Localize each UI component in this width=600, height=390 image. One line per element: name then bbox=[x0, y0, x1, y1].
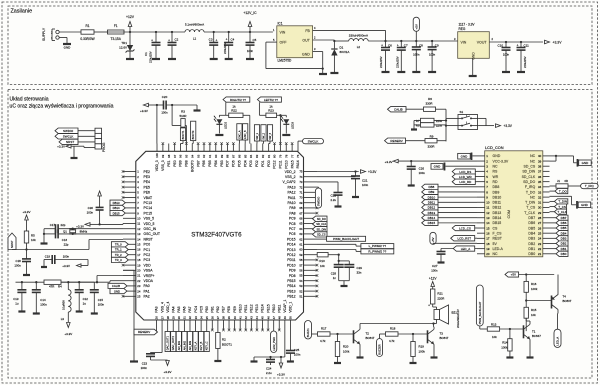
capacitor C24 bbox=[266, 357, 275, 375]
svg-text:FB: FB bbox=[305, 29, 310, 33]
svg-text:R23: R23 bbox=[268, 108, 274, 112]
svg-text:OSC_OUT: OSC_OUT bbox=[144, 232, 160, 236]
svg-text:GND: GND bbox=[472, 52, 476, 60]
net flag GND at LCD pin3 bbox=[431, 163, 477, 171]
svg-text:PB5: PB5 bbox=[208, 160, 212, 167]
svg-text:SD_CLK: SD_CLK bbox=[522, 175, 536, 179]
svg-text:PB8: PB8 bbox=[185, 160, 189, 167]
svg-text:V_CAP2: V_CAP2 bbox=[282, 180, 295, 184]
svg-text:34: 34 bbox=[199, 316, 203, 320]
net flag +5V vertical at LCD pin18 bbox=[430, 232, 477, 244]
svg-text:4.7k: 4.7k bbox=[320, 339, 326, 343]
net flag DB11 bbox=[422, 200, 477, 205]
svg-text:VDD_5: VDD_5 bbox=[144, 222, 155, 226]
svg-text:+3.3V: +3.3V bbox=[64, 332, 72, 336]
LED LED3 bbox=[281, 115, 295, 133]
svg-text:DB1: DB1 bbox=[561, 247, 567, 251]
svg-text:+3.3V: +3.3V bbox=[504, 124, 513, 128]
svg-text:39: 39 bbox=[227, 316, 231, 320]
svg-text:80: 80 bbox=[273, 154, 277, 158]
svg-text:PA3: PA3 bbox=[155, 306, 159, 312]
svg-text:VCC-3.3V: VCC-3.3V bbox=[493, 159, 509, 163]
wire R10 to caps bbox=[328, 254, 349, 262]
svg-text:C11: C11 bbox=[524, 44, 530, 48]
svg-text:72: 72 bbox=[299, 185, 303, 189]
supply +3.3V bbox=[140, 103, 164, 113]
net flag TR1 at PC1 bbox=[111, 247, 128, 252]
svg-text:37: 37 bbox=[538, 170, 542, 174]
svg-text:+3.3V: +3.3V bbox=[57, 145, 65, 149]
svg-text:+12V: +12V bbox=[126, 15, 135, 19]
svg-text:LED-A: LED-A bbox=[493, 247, 504, 251]
svg-text:5V: 5V bbox=[493, 242, 498, 246]
capacitor C9 bbox=[428, 41, 439, 71]
svg-text:DB11: DB11 bbox=[493, 201, 502, 205]
svg-text:63: 63 bbox=[299, 232, 303, 236]
wire rail to C2 bbox=[155, 31, 185, 33]
svg-text:PD12: PD12 bbox=[287, 253, 296, 257]
svg-text:83: 83 bbox=[255, 154, 259, 158]
svg-text:76: 76 bbox=[296, 154, 300, 158]
svg-text:66: 66 bbox=[299, 217, 303, 221]
svg-text:18: 18 bbox=[137, 258, 141, 262]
svg-text:R19: R19 bbox=[419, 344, 425, 348]
net flag NRST vertical bbox=[8, 233, 16, 250]
svg-text:10: 10 bbox=[486, 201, 490, 205]
ground bbox=[334, 362, 341, 364]
svg-text:PB12: PB12 bbox=[287, 295, 295, 299]
wire R22 to pin bbox=[243, 115, 250, 143]
net flag DB10 bbox=[422, 195, 477, 200]
svg-text:60V/1A: 60V/1A bbox=[340, 50, 350, 54]
capacitor C13 bbox=[13, 282, 26, 310]
svg-text:BC847: BC847 bbox=[440, 336, 449, 340]
wire REG VOUT to +3.3V bbox=[489, 41, 543, 43]
ground bbox=[194, 105, 201, 111]
svg-text:R_PWM/2 ??: R_PWM/2 ?? bbox=[368, 250, 386, 254]
svg-text:PA10: PA10 bbox=[287, 201, 295, 205]
svg-text:KEY_B: KEY_B bbox=[199, 341, 203, 350]
svg-text:10k: 10k bbox=[31, 238, 36, 242]
svg-text:BOOT0: BOOT0 bbox=[191, 130, 195, 139]
svg-text:NRST: NRST bbox=[144, 237, 153, 241]
svg-text:DB15: DB15 bbox=[113, 211, 120, 215]
svg-text:19: 19 bbox=[137, 263, 141, 267]
svg-text:+3.3V: +3.3V bbox=[385, 160, 393, 164]
svg-text:PA6: PA6 bbox=[183, 306, 187, 312]
net flag RESERV at PA3 bbox=[134, 329, 158, 335]
svg-text:NRST: NRST bbox=[10, 240, 14, 248]
transil TR1 bbox=[119, 32, 134, 58]
svg-text:TR_2: TR_2 bbox=[115, 253, 122, 257]
svg-text:R5: R5 bbox=[31, 234, 35, 238]
net flag BOOT0 vertical bbox=[191, 121, 196, 143]
svg-text:PE1: PE1 bbox=[167, 160, 171, 167]
svg-text:C29: C29 bbox=[357, 266, 363, 270]
svg-text:36: 36 bbox=[538, 175, 542, 179]
capacitor C20 bbox=[156, 95, 197, 115]
svg-text:VREF+: VREF+ bbox=[144, 274, 155, 278]
svg-text:36: 36 bbox=[211, 316, 215, 320]
svg-text:330R: 330R bbox=[426, 101, 433, 105]
ground bbox=[214, 360, 221, 362]
svg-text:PD0: PD0 bbox=[267, 160, 271, 167]
svg-text:PC10: PC10 bbox=[284, 160, 288, 169]
svg-text:VSS_5: VSS_5 bbox=[144, 217, 155, 221]
svg-text:89: 89 bbox=[220, 154, 224, 158]
svg-text:PB15: PB15 bbox=[287, 279, 295, 283]
svg-text:VDD_1: VDD_1 bbox=[289, 302, 293, 313]
svg-text:99: 99 bbox=[161, 154, 165, 158]
wire VSS_2 bbox=[317, 176, 356, 178]
svg-text:20: 20 bbox=[137, 269, 141, 273]
capacitor C23 bbox=[141, 353, 168, 371]
svg-text:+: + bbox=[381, 44, 383, 48]
net flag vertical PA15 bbox=[254, 125, 259, 144]
svg-text:79: 79 bbox=[279, 154, 283, 158]
svg-text:100k: 100k bbox=[419, 349, 426, 353]
svg-text:93: 93 bbox=[196, 154, 200, 158]
net flag SD_DIN bbox=[313, 227, 328, 232]
net flag NRST bbox=[59, 139, 78, 144]
net flag DB13 bbox=[422, 210, 477, 215]
inductor L1 bbox=[185, 23, 204, 41]
svg-text:C27: C27 bbox=[432, 264, 438, 268]
net flag RIGHT/2 bbox=[223, 97, 250, 102]
svg-text:SD_CS: SD_CS bbox=[524, 165, 536, 169]
net flag DB1 bbox=[550, 246, 569, 251]
svg-text:C24: C24 bbox=[266, 367, 272, 371]
svg-text:KEY_A: KEY_A bbox=[194, 341, 198, 350]
svg-text:47: 47 bbox=[272, 316, 276, 320]
net flag CALIB at PA0 bbox=[108, 283, 127, 288]
connector SUPPLY bbox=[42, 27, 59, 41]
svg-text:30: 30 bbox=[538, 206, 542, 210]
net flag LCD_RST bbox=[451, 236, 477, 241]
wire T1 collector bbox=[526, 318, 530, 324]
capacitor C26 bbox=[407, 161, 426, 184]
wire R7 R8 right to node bbox=[434, 121, 446, 125]
svg-text:R22: R22 bbox=[231, 108, 237, 112]
ground bbox=[76, 310, 83, 312]
svg-text:REST: REST bbox=[493, 237, 503, 241]
svg-text:SWCLK: SWCLK bbox=[308, 139, 319, 143]
svg-text:T3: T3 bbox=[440, 332, 444, 336]
svg-text:R16: R16 bbox=[531, 282, 537, 286]
supply +3.3V bbox=[361, 170, 378, 174]
wire R18 to T3 bbox=[398, 333, 428, 335]
svg-text:220u/25V: 220u/25V bbox=[379, 56, 383, 68]
net flag BUZZ1 vertical bbox=[305, 321, 318, 340]
svg-text:1u: 1u bbox=[83, 301, 87, 305]
capacitor C10 bbox=[497, 42, 510, 71]
net flag PWM_BACKLIGHT bbox=[317, 236, 366, 241]
ground bbox=[341, 285, 348, 287]
svg-text:2.2u: 2.2u bbox=[331, 198, 337, 202]
wire R1 to F1 bbox=[94, 31, 108, 33]
svg-text:PB3: PB3 bbox=[220, 160, 224, 167]
svg-text:37: 37 bbox=[216, 316, 220, 320]
capacitor C1 bbox=[144, 32, 161, 63]
svg-text:L_PWM/2 ??: L_PWM/2 ?? bbox=[369, 244, 387, 248]
svg-text:77: 77 bbox=[290, 154, 294, 158]
svg-text:100k: 100k bbox=[531, 287, 538, 291]
capacitor C29 bbox=[344, 261, 362, 281]
svg-text:SW_2: SW_2 bbox=[263, 132, 266, 139]
svg-text:C9: C9 bbox=[435, 44, 439, 48]
svg-text:SD_CLK: SD_CLK bbox=[316, 222, 326, 226]
svg-text:0R: 0R bbox=[565, 179, 569, 183]
svg-text:PB10: PB10 bbox=[272, 304, 276, 312]
svg-text:DB9: DB9 bbox=[493, 190, 500, 194]
svg-text:17: 17 bbox=[137, 253, 141, 257]
crystal circuit OSC bbox=[58, 228, 123, 236]
inductor L3 bbox=[61, 282, 71, 322]
svg-text:PB13: PB13 bbox=[287, 289, 295, 293]
svg-text:PC11: PC11 bbox=[279, 160, 283, 168]
svg-text:26: 26 bbox=[538, 226, 542, 230]
net flag DB14 at PC14 bbox=[110, 205, 125, 210]
net flag LCD_CS bbox=[452, 225, 477, 230]
svg-text:60: 60 bbox=[299, 248, 303, 252]
capacitor C2 bbox=[168, 32, 179, 58]
svg-text:DB8: DB8 bbox=[428, 185, 434, 189]
wire R9 to node bbox=[437, 140, 446, 143]
svg-text:PD4: PD4 bbox=[243, 160, 247, 167]
svg-text:PC15: PC15 bbox=[144, 211, 153, 215]
svg-text:C10: C10 bbox=[497, 44, 503, 48]
svg-text:20mA/4kHz/12V: 20mA/4kHz/12V bbox=[456, 309, 460, 328]
svg-text:100: 100 bbox=[155, 153, 159, 158]
svg-text:+3.3V: +3.3V bbox=[140, 109, 148, 113]
svg-text:PD6: PD6 bbox=[232, 160, 236, 167]
svg-text:PB9: PB9 bbox=[179, 160, 183, 167]
svg-text:R6: R6 bbox=[428, 97, 432, 101]
svg-text:82: 82 bbox=[261, 154, 265, 158]
svg-text:C8: C8 bbox=[419, 44, 423, 48]
svg-text:27: 27 bbox=[538, 221, 542, 225]
connector LCD_CON bbox=[477, 145, 550, 257]
svg-text:PA2: PA2 bbox=[144, 295, 150, 299]
ground bbox=[357, 356, 364, 358]
svg-text:1n: 1n bbox=[333, 276, 337, 280]
net flag vertical AN_IN3 bbox=[187, 330, 192, 352]
svg-text:48: 48 bbox=[277, 316, 281, 320]
svg-text:PD5: PD5 bbox=[237, 160, 241, 167]
svg-text:REG: REG bbox=[459, 27, 466, 31]
svg-text:PC1: PC1 bbox=[144, 248, 151, 252]
resistor R15 bbox=[524, 307, 537, 318]
svg-text:14: 14 bbox=[486, 221, 490, 225]
ground bbox=[41, 242, 48, 244]
resistor J1 0R bbox=[550, 179, 569, 188]
svg-text:50: 50 bbox=[289, 316, 293, 320]
svg-text:PA7: PA7 bbox=[188, 306, 192, 312]
svg-text:100n: 100n bbox=[98, 303, 105, 307]
ground bbox=[428, 71, 436, 73]
crystal Q1 bbox=[63, 229, 88, 234]
svg-text:uC oraz złącza wyświetlacza i: uC oraz złącza wyświetlacza i programowa… bbox=[10, 103, 114, 109]
svg-text:32: 32 bbox=[538, 195, 542, 199]
svg-text:100n: 100n bbox=[419, 171, 426, 175]
svg-text:16: 16 bbox=[486, 231, 490, 235]
svg-text:DB12: DB12 bbox=[493, 206, 502, 210]
svg-text:VBAT: VBAT bbox=[144, 196, 153, 200]
svg-text:LCD_CON: LCD_CON bbox=[485, 145, 504, 150]
svg-text:C23: C23 bbox=[142, 362, 148, 366]
net flag T_IRQ bbox=[568, 183, 598, 188]
svg-text:100n: 100n bbox=[161, 111, 168, 115]
net flag SD_CLK bbox=[313, 221, 328, 226]
supply +3.3V bbox=[277, 356, 285, 377]
svg-text:VDD_2: VDD_2 bbox=[285, 170, 296, 174]
svg-text:R21: R21 bbox=[437, 292, 443, 296]
svg-text:PA0: PA0 bbox=[144, 284, 150, 288]
supply +3.3V bbox=[76, 223, 100, 229]
svg-text:AN_IN2: AN_IN2 bbox=[182, 340, 186, 350]
svg-text:LCD_RST: LCD_RST bbox=[457, 236, 471, 240]
svg-text:RS: RS bbox=[493, 170, 499, 174]
svg-text:PD15: PD15 bbox=[287, 237, 296, 241]
svg-text:VIN: VIN bbox=[280, 31, 286, 35]
svg-text:84: 84 bbox=[249, 154, 253, 158]
svg-text:100n: 100n bbox=[247, 49, 254, 53]
svg-text:PE10: PE10 bbox=[238, 304, 242, 312]
wire PROG gnd bbox=[73, 146, 75, 157]
ground bbox=[410, 362, 417, 364]
svg-text:DB2: DB2 bbox=[561, 242, 567, 246]
svg-text:22p: 22p bbox=[64, 243, 69, 247]
net flag DB15 bbox=[422, 220, 477, 225]
svg-text:+3.3V: +3.3V bbox=[368, 170, 377, 174]
svg-text:GND: GND bbox=[461, 154, 469, 158]
cap C30 and +3.3V feed to VDD_5 bbox=[87, 191, 123, 226]
svg-text:PD9: PD9 bbox=[289, 269, 296, 273]
svg-text:RIGHT/2 ??: RIGHT/2 ?? bbox=[230, 98, 246, 102]
connector PROG bbox=[95, 128, 106, 152]
net flag SWCLK at PA14 bbox=[298, 139, 324, 144]
net flag vertical PD4 bbox=[243, 124, 248, 144]
svg-text:AN_IN3: AN_IN3 bbox=[188, 340, 192, 350]
svg-text:330R: 330R bbox=[428, 144, 435, 148]
resistor R2 BOOT1 bbox=[216, 330, 233, 360]
svg-text:PA12: PA12 bbox=[287, 191, 295, 195]
svg-text:S1: S1 bbox=[460, 110, 464, 114]
svg-text:100n: 100n bbox=[362, 183, 369, 187]
svg-text:R3: R3 bbox=[181, 110, 185, 114]
net flag GND bbox=[577, 201, 591, 209]
svg-text:DB10: DB10 bbox=[428, 195, 436, 199]
svg-text:DB3: DB3 bbox=[528, 237, 535, 241]
svg-text:DB13: DB13 bbox=[493, 211, 502, 215]
svg-text:+: + bbox=[428, 304, 430, 308]
resistor R1 bbox=[80, 24, 94, 41]
wire caps to ground bbox=[43, 229, 45, 243]
svg-text:PE14: PE14 bbox=[261, 304, 265, 312]
svg-text:ENC_A: ENC_A bbox=[238, 130, 241, 139]
net flag RESERV bbox=[385, 138, 426, 143]
capacitor C28 bbox=[331, 261, 344, 281]
svg-text:19: 19 bbox=[486, 247, 490, 251]
ground bbox=[168, 58, 176, 60]
svg-text:PROG: PROG bbox=[102, 142, 106, 152]
ground bbox=[502, 71, 510, 73]
svg-text:PA4: PA4 bbox=[171, 306, 175, 312]
svg-text:+5V: +5V bbox=[414, 24, 418, 29]
svg-text:OFF: OFF bbox=[280, 41, 287, 45]
net flag DB12 bbox=[422, 205, 477, 210]
svg-text:AN_IN1: AN_IN1 bbox=[177, 340, 181, 350]
transistor T2 BC847 bbox=[354, 329, 375, 344]
ground bbox=[152, 58, 160, 60]
svg-text:T1: T1 bbox=[532, 330, 536, 334]
svg-text:SD_DIN: SD_DIN bbox=[317, 227, 327, 231]
svg-text:220u/25V: 220u/25V bbox=[149, 51, 153, 63]
svg-text:40: 40 bbox=[233, 316, 237, 320]
svg-text:R20: R20 bbox=[343, 344, 349, 348]
svg-text:65: 65 bbox=[299, 222, 303, 226]
wire R13 to T1 base bbox=[500, 328, 524, 330]
wire S1 to +3.3V bbox=[446, 118, 494, 125]
svg-text:BC807: BC807 bbox=[563, 299, 572, 303]
transistor T1 BC847 bbox=[524, 324, 542, 339]
svg-text:D1: D1 bbox=[340, 46, 344, 50]
resistor R19 bbox=[411, 334, 426, 362]
svg-text:IC1: IC1 bbox=[278, 21, 283, 25]
svg-text:100n: 100n bbox=[294, 352, 301, 356]
svg-text:1117 - 3.3V: 1117 - 3.3V bbox=[459, 23, 476, 27]
net flag T_CLK bbox=[550, 209, 567, 214]
svg-text:46: 46 bbox=[266, 316, 270, 320]
svg-text:T3.15A: T3.15A bbox=[111, 37, 122, 41]
ground bbox=[397, 71, 405, 73]
svg-text:T_DO: T_DO bbox=[526, 190, 536, 194]
svg-text:C7: C7 bbox=[404, 44, 408, 48]
svg-text:VDD_3: VDD_3 bbox=[155, 160, 159, 171]
svg-text:DB7: DB7 bbox=[528, 216, 535, 220]
svg-text:R14: R14 bbox=[502, 340, 508, 344]
svg-text:VIN: VIN bbox=[461, 41, 467, 45]
svg-text:0.33R/3W: 0.33R/3W bbox=[80, 37, 94, 41]
svg-text:DB15: DB15 bbox=[428, 221, 436, 225]
svg-text:12: 12 bbox=[137, 227, 141, 231]
svg-text:41: 41 bbox=[238, 316, 242, 320]
svg-text:220u/25V: 220u/25V bbox=[523, 56, 527, 68]
svg-text:DB8: DB8 bbox=[493, 185, 500, 189]
svg-text:LCD_RD: LCD_RD bbox=[459, 180, 472, 184]
net flag DB15 at PC15 bbox=[110, 211, 125, 216]
resistor R22 bbox=[229, 104, 243, 117]
svg-text:BUZZER: BUZZER bbox=[378, 344, 382, 355]
svg-text:C4: C4 bbox=[231, 38, 235, 42]
svg-text:69: 69 bbox=[299, 201, 303, 205]
svg-text:T_DIN: T_DIN bbox=[525, 201, 536, 205]
net flag vertical DAC_OUT2 bbox=[171, 330, 176, 352]
svg-text:PE4: PE4 bbox=[144, 180, 151, 184]
net flag LED_A at LCD pin19 bbox=[441, 246, 477, 251]
svg-text:NC: NC bbox=[493, 165, 499, 169]
svg-text:BC847: BC847 bbox=[366, 336, 375, 340]
svg-text:PD3: PD3 bbox=[249, 160, 253, 167]
svg-text:R17: R17 bbox=[321, 326, 327, 330]
ground bbox=[438, 261, 445, 263]
svg-text:DB13: DB13 bbox=[113, 201, 120, 205]
svg-text:F_IRQ: F_IRQ bbox=[525, 185, 536, 189]
svg-text:PE3: PE3 bbox=[144, 175, 151, 179]
svg-text:J1: J1 bbox=[557, 179, 560, 183]
svg-text:C1: C1 bbox=[144, 52, 148, 56]
svg-text:NC: NC bbox=[530, 195, 536, 199]
